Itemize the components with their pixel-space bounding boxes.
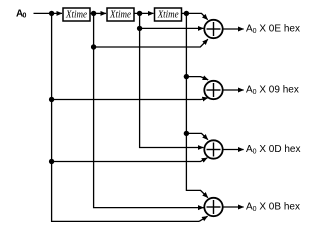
svg-text:Xtime: Xtime [157,9,179,21]
svg-text:0: 0 [23,12,27,19]
svg-text:Xtime: Xtime [109,9,131,21]
svg-text:Xtime: Xtime [65,9,87,21]
